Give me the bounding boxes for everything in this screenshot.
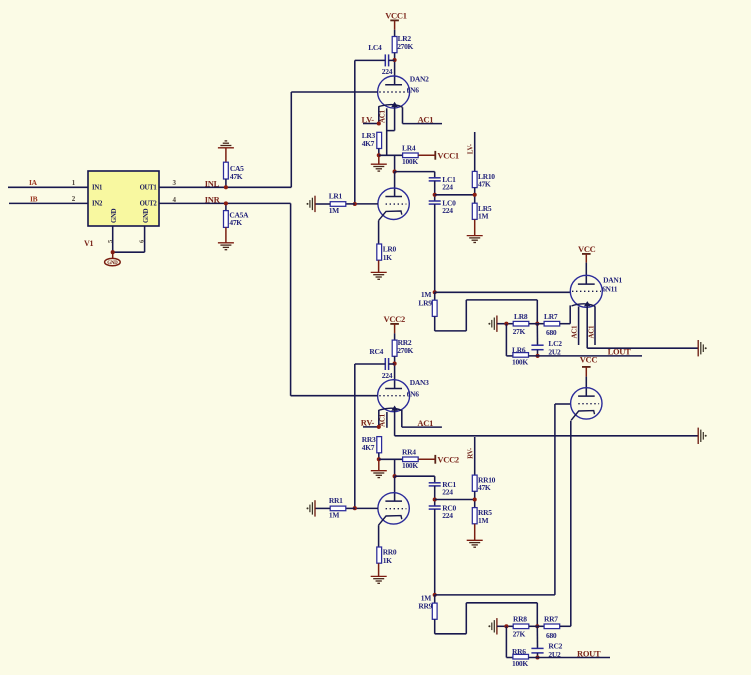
svg-text:1M: 1M bbox=[329, 511, 339, 520]
svg-text:VCC1: VCC1 bbox=[437, 151, 459, 161]
svg-text:IN1: IN1 bbox=[92, 184, 103, 191]
svg-text:VCC: VCC bbox=[578, 244, 596, 254]
svg-text:4K7: 4K7 bbox=[362, 139, 375, 148]
svg-text:680: 680 bbox=[546, 328, 557, 337]
svg-text:224: 224 bbox=[442, 511, 453, 520]
svg-text:LV-: LV- bbox=[466, 143, 474, 154]
svg-text:47K: 47K bbox=[230, 172, 243, 181]
svg-text:RR6: RR6 bbox=[512, 647, 526, 656]
svg-text:RV-: RV- bbox=[466, 447, 474, 459]
svg-text:IB: IB bbox=[30, 195, 38, 204]
svg-text:LR8: LR8 bbox=[514, 312, 528, 321]
svg-text:1K: 1K bbox=[383, 556, 392, 565]
svg-text:DAN2: DAN2 bbox=[410, 74, 429, 83]
svg-text:224: 224 bbox=[382, 371, 393, 380]
svg-text:AC1: AC1 bbox=[587, 325, 595, 339]
svg-text:1K: 1K bbox=[383, 253, 392, 262]
svg-text:RC2: RC2 bbox=[548, 642, 562, 651]
svg-text:GND: GND bbox=[143, 208, 150, 223]
svg-text:AC1: AC1 bbox=[417, 418, 433, 428]
svg-text:680: 680 bbox=[546, 631, 557, 640]
svg-text:AC1: AC1 bbox=[379, 413, 387, 427]
svg-text:IN2: IN2 bbox=[92, 200, 103, 207]
svg-text:6N6: 6N6 bbox=[407, 86, 420, 95]
svg-text:LR9: LR9 bbox=[418, 299, 432, 308]
svg-text:270K: 270K bbox=[397, 346, 413, 355]
svg-text:OUT2: OUT2 bbox=[140, 200, 158, 207]
svg-text:AC1: AC1 bbox=[570, 325, 578, 339]
svg-text:RR8: RR8 bbox=[513, 615, 527, 624]
svg-text:LR6: LR6 bbox=[512, 345, 526, 354]
svg-text:1M: 1M bbox=[329, 206, 339, 215]
svg-text:224: 224 bbox=[442, 182, 453, 191]
svg-text:100K: 100K bbox=[512, 358, 528, 367]
svg-text:RR9: RR9 bbox=[418, 602, 432, 611]
svg-text:LR7: LR7 bbox=[544, 312, 558, 321]
svg-text:LC2: LC2 bbox=[548, 339, 562, 348]
svg-text:DAN1: DAN1 bbox=[603, 275, 622, 284]
svg-text:47K: 47K bbox=[229, 218, 242, 227]
svg-text:224: 224 bbox=[442, 487, 453, 496]
svg-text:6N11: 6N11 bbox=[602, 284, 618, 293]
svg-text:RC4: RC4 bbox=[369, 347, 383, 356]
svg-text:INL: INL bbox=[205, 178, 220, 188]
svg-text:RR7: RR7 bbox=[544, 615, 558, 624]
svg-text:100K: 100K bbox=[402, 461, 418, 470]
svg-text:1M: 1M bbox=[421, 290, 431, 299]
svg-text:IA: IA bbox=[29, 178, 38, 187]
svg-text:GND: GND bbox=[111, 208, 118, 223]
svg-text:VCC: VCC bbox=[580, 354, 598, 364]
svg-text:RR4: RR4 bbox=[402, 447, 416, 456]
svg-text:VCC1: VCC1 bbox=[385, 10, 407, 20]
svg-text:1M: 1M bbox=[478, 211, 488, 220]
svg-text:4K7: 4K7 bbox=[362, 443, 375, 452]
svg-text:LC4: LC4 bbox=[368, 43, 382, 52]
svg-text:AC1: AC1 bbox=[379, 109, 387, 123]
svg-text:DAN3: DAN3 bbox=[410, 378, 429, 387]
svg-text:100K: 100K bbox=[512, 659, 528, 668]
svg-text:27K: 27K bbox=[513, 327, 526, 336]
svg-text:47K: 47K bbox=[478, 180, 491, 189]
svg-text:224: 224 bbox=[442, 206, 453, 215]
svg-text:6N6: 6N6 bbox=[407, 389, 420, 398]
svg-text:LR4: LR4 bbox=[402, 143, 416, 152]
svg-text:270K: 270K bbox=[397, 42, 413, 51]
svg-text:RR1: RR1 bbox=[329, 496, 343, 505]
svg-text:LV-: LV- bbox=[362, 114, 375, 124]
svg-text:INR: INR bbox=[205, 195, 221, 205]
svg-text:VCC2: VCC2 bbox=[384, 314, 406, 324]
svg-text:224: 224 bbox=[382, 67, 393, 76]
svg-text:VCC2: VCC2 bbox=[437, 455, 459, 465]
svg-text:47K: 47K bbox=[478, 483, 491, 492]
svg-text:27K: 27K bbox=[513, 630, 526, 639]
svg-text:1M: 1M bbox=[478, 516, 488, 525]
svg-text:AC1: AC1 bbox=[418, 114, 434, 124]
svg-text:GND: GND bbox=[107, 261, 118, 266]
svg-text:V1: V1 bbox=[84, 239, 93, 248]
svg-text:100K: 100K bbox=[402, 157, 418, 166]
svg-text:LR1: LR1 bbox=[329, 192, 343, 201]
svg-text:ROUT: ROUT bbox=[577, 648, 601, 658]
svg-text:OUT1: OUT1 bbox=[140, 184, 158, 191]
svg-text:RV-: RV- bbox=[361, 418, 375, 428]
